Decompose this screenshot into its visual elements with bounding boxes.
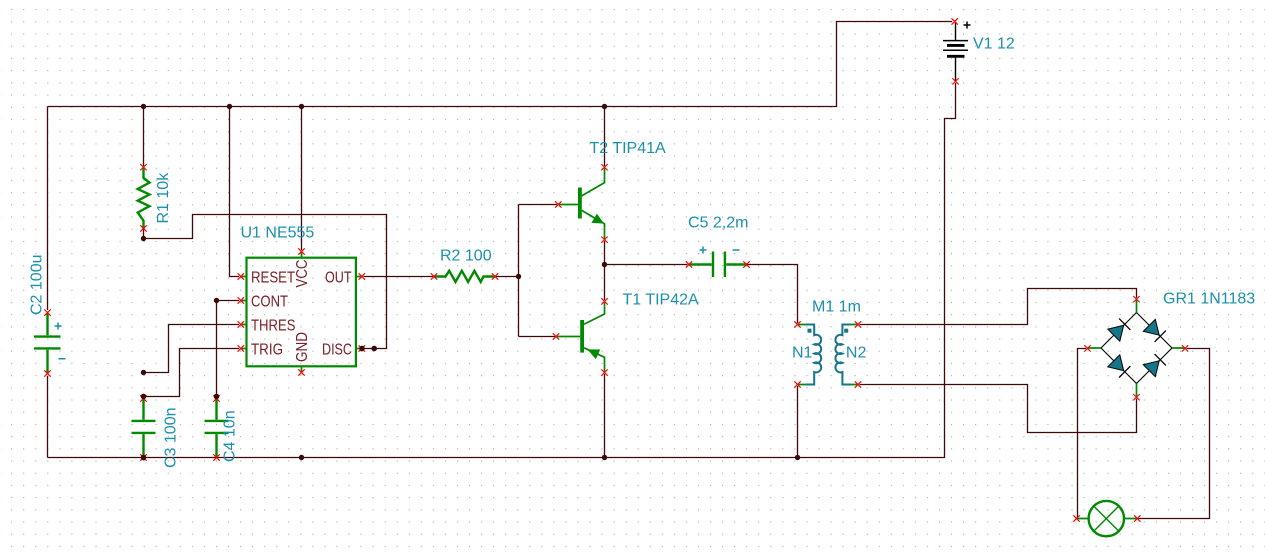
capacitor C4 — [205, 301, 240, 461]
svg-text:N2: N2 — [846, 344, 867, 361]
pin OUT — [325, 269, 365, 286]
transistor T1 TIP42A — [553, 298, 608, 376]
junction DISC pin dot — [359, 346, 364, 351]
svg-text:R1 10k: R1 10k — [155, 172, 172, 224]
wire output node to C5 — [605, 264, 688, 266]
svg-text:OUT: OUT — [325, 269, 352, 286]
wire top VCC rail to battery plus — [48, 22, 953, 107]
wire bridge right to lamp right — [1139, 349, 1210, 519]
junction DISC wire dot — [372, 346, 377, 351]
battery V1 — [943, 18, 971, 84]
junction C4 top — [214, 394, 219, 399]
lamp — [1073, 501, 1140, 536]
svg-text:DISC: DISC — [322, 341, 352, 358]
pin THRES — [238, 317, 296, 334]
junction top rail at RESET column — [227, 104, 232, 109]
svg-text:VCC: VCC — [294, 260, 311, 288]
bridge rectifier GR1 diamond — [1084, 296, 1188, 400]
wire to T2 base — [519, 204, 558, 206]
junction N1 bottom on rail — [795, 455, 800, 460]
wire left rail upper — [47, 107, 49, 311]
svg-text:T1 TIP42A: T1 TIP42A — [623, 292, 700, 309]
junction top rail at T2 collector — [602, 104, 607, 109]
transformer M1 winding N1 — [794, 321, 821, 387]
pin CONT — [238, 293, 289, 310]
wire R1 junction to DISC pin — [144, 215, 387, 349]
wire to T1 base — [519, 336, 556, 338]
transformer M1 winding N2 — [835, 321, 861, 387]
junction C3 bottom on rail — [141, 455, 146, 460]
junction overlay DISC pin — [359, 346, 364, 351]
svg-text:R2 100: R2 100 — [440, 248, 492, 265]
svg-text:C5 2,2m: C5 2,2m — [688, 215, 748, 232]
svg-text:GR1 1N1183: GR1 1N1183 — [1163, 291, 1255, 308]
wire base junction column — [518, 205, 520, 337]
svg-text:U1 NE555: U1 NE555 — [241, 225, 315, 242]
junction overlay DISC wire — [372, 346, 377, 351]
diode D4 bottom-right — [1143, 354, 1166, 377]
wire VCC pin from top rail — [301, 107, 303, 251]
wire N2 bottom to bridge bottom — [860, 385, 1137, 433]
wire T2 emitter to output node — [604, 241, 606, 265]
capacitor C2 — [34, 309, 66, 376]
pin TRIG — [238, 341, 283, 358]
wire T2 collector from top rail — [604, 107, 606, 167]
junction CONT corner — [214, 298, 219, 303]
svg-text:T2 TIP41A: T2 TIP41A — [590, 140, 667, 157]
pin GND — [294, 332, 311, 376]
op-amp U1 NE555 body — [247, 258, 356, 367]
svg-text:N1: N1 — [792, 344, 813, 361]
resistor R2 — [431, 271, 498, 282]
wire left rail lower — [47, 376, 49, 458]
junction TRIG / C3 top — [141, 394, 146, 399]
diode D2 top-right — [1143, 319, 1166, 342]
wire RESET pin from top rail — [230, 107, 240, 277]
capacitor C5 — [686, 247, 750, 278]
wire R1 top connection — [143, 107, 145, 167]
wire N1 bottom to ground rail — [797, 386, 799, 458]
diode D1 top-left — [1108, 319, 1131, 342]
junction R1 bottom — [141, 236, 146, 241]
junction overlay C4 top — [214, 394, 219, 399]
svg-text:CONT: CONT — [251, 293, 288, 310]
svg-text:THRES: THRES — [251, 317, 296, 334]
pin RESET — [238, 269, 296, 286]
wire N2 top to bridge top — [860, 289, 1137, 325]
transistor T2 TIP41A — [555, 164, 608, 243]
resistor R1 — [138, 164, 150, 232]
junction top rail at VCC column — [299, 104, 304, 109]
pin VCC — [294, 248, 311, 287]
svg-text:M1 1m: M1 1m — [812, 299, 861, 316]
wire T1 emitter to ground rail — [604, 374, 606, 458]
wire R2 to base junction — [496, 276, 519, 278]
junction overlay C3 top — [141, 394, 146, 399]
wire TRIG pin — [144, 349, 240, 397]
junction R2 base node — [516, 274, 521, 279]
capacitor C3 — [132, 395, 156, 460]
svg-text:C3 100n: C3 100n — [163, 408, 180, 469]
svg-text:C2 100u: C2 100u — [28, 255, 45, 316]
junction GND pin on rail — [299, 455, 304, 460]
wire output node to T1 collector — [604, 265, 606, 301]
pin DISC — [322, 341, 365, 358]
svg-text:RESET: RESET — [251, 269, 295, 286]
svg-text:TRIG: TRIG — [251, 341, 283, 358]
junction THRES corner — [141, 370, 146, 375]
wire OUT pin to R2 — [364, 276, 434, 278]
svg-text:C4 10n: C4 10n — [222, 410, 239, 462]
wire C5 to N1 top — [748, 265, 798, 324]
svg-text:GND: GND — [294, 332, 311, 362]
junction T1 emitter on rail — [602, 455, 607, 460]
wire bridge left to lamp left — [1078, 349, 1087, 519]
junction emitter output node — [602, 262, 607, 267]
junction overlay C3 bottom — [141, 455, 146, 460]
wire bottom ground rail up to battery minus — [48, 83, 956, 458]
diode D3 bottom-left — [1108, 355, 1131, 378]
junction top rail at R1 — [141, 104, 146, 109]
svg-text:V1 12: V1 12 — [973, 36, 1015, 53]
wire THRES pin — [144, 325, 240, 373]
wire R1 bottom to junction — [143, 229, 145, 239]
